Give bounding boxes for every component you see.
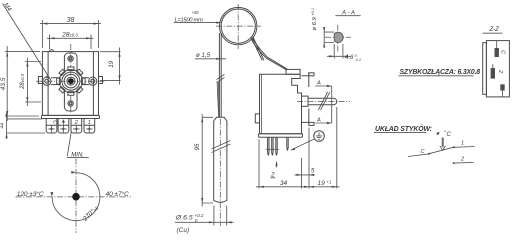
svg-text:+50: +50 <box>192 10 200 15</box>
svg-text:34: 34 <box>280 180 288 187</box>
svg-text:11: 11 <box>0 122 5 128</box>
svg-text:4.6: 4.6 <box>345 55 354 61</box>
svg-text:A: A <box>316 80 321 86</box>
svg-text:2: 2 <box>460 157 464 163</box>
svg-text:-0.1: -0.1 <box>355 58 362 62</box>
svg-text:✱: ✱ <box>436 131 440 136</box>
svg-text:2: 2 <box>497 69 503 73</box>
svg-text:2: 2 <box>74 120 78 126</box>
svg-text:43.5: 43.5 <box>0 77 7 90</box>
svg-text:28±0.3: 28±0.3 <box>61 31 78 38</box>
svg-text:C: C <box>447 132 452 138</box>
svg-text:UKŁAD STYKÓW:: UKŁAD STYKÓW: <box>375 124 432 133</box>
svg-text:C: C <box>500 50 506 54</box>
svg-text:(Cu): (Cu) <box>177 227 190 234</box>
svg-text:ø 1,5: ø 1,5 <box>196 52 211 59</box>
svg-text:1: 1 <box>461 141 464 147</box>
svg-text:C: C <box>421 149 425 155</box>
svg-text:MIN.: MIN. <box>71 152 84 158</box>
svg-text:95: 95 <box>194 143 201 150</box>
svg-text:120 ±3°C: 120 ±3°C <box>17 190 44 198</box>
svg-text:SZYBKOZŁĄCZA: 6.3X0.8: SZYBKOZŁĄCZA: 6.3X0.8 <box>400 69 481 76</box>
svg-text:40 ±7°C: 40 ±7°C <box>106 190 129 198</box>
svg-text:38: 38 <box>67 17 75 24</box>
svg-text:Z-Z: Z-Z <box>489 27 500 33</box>
svg-text:A: A <box>316 117 321 123</box>
svg-text:19: 19 <box>109 60 115 67</box>
svg-text:1: 1 <box>88 120 91 126</box>
svg-text:C: C <box>51 120 57 124</box>
